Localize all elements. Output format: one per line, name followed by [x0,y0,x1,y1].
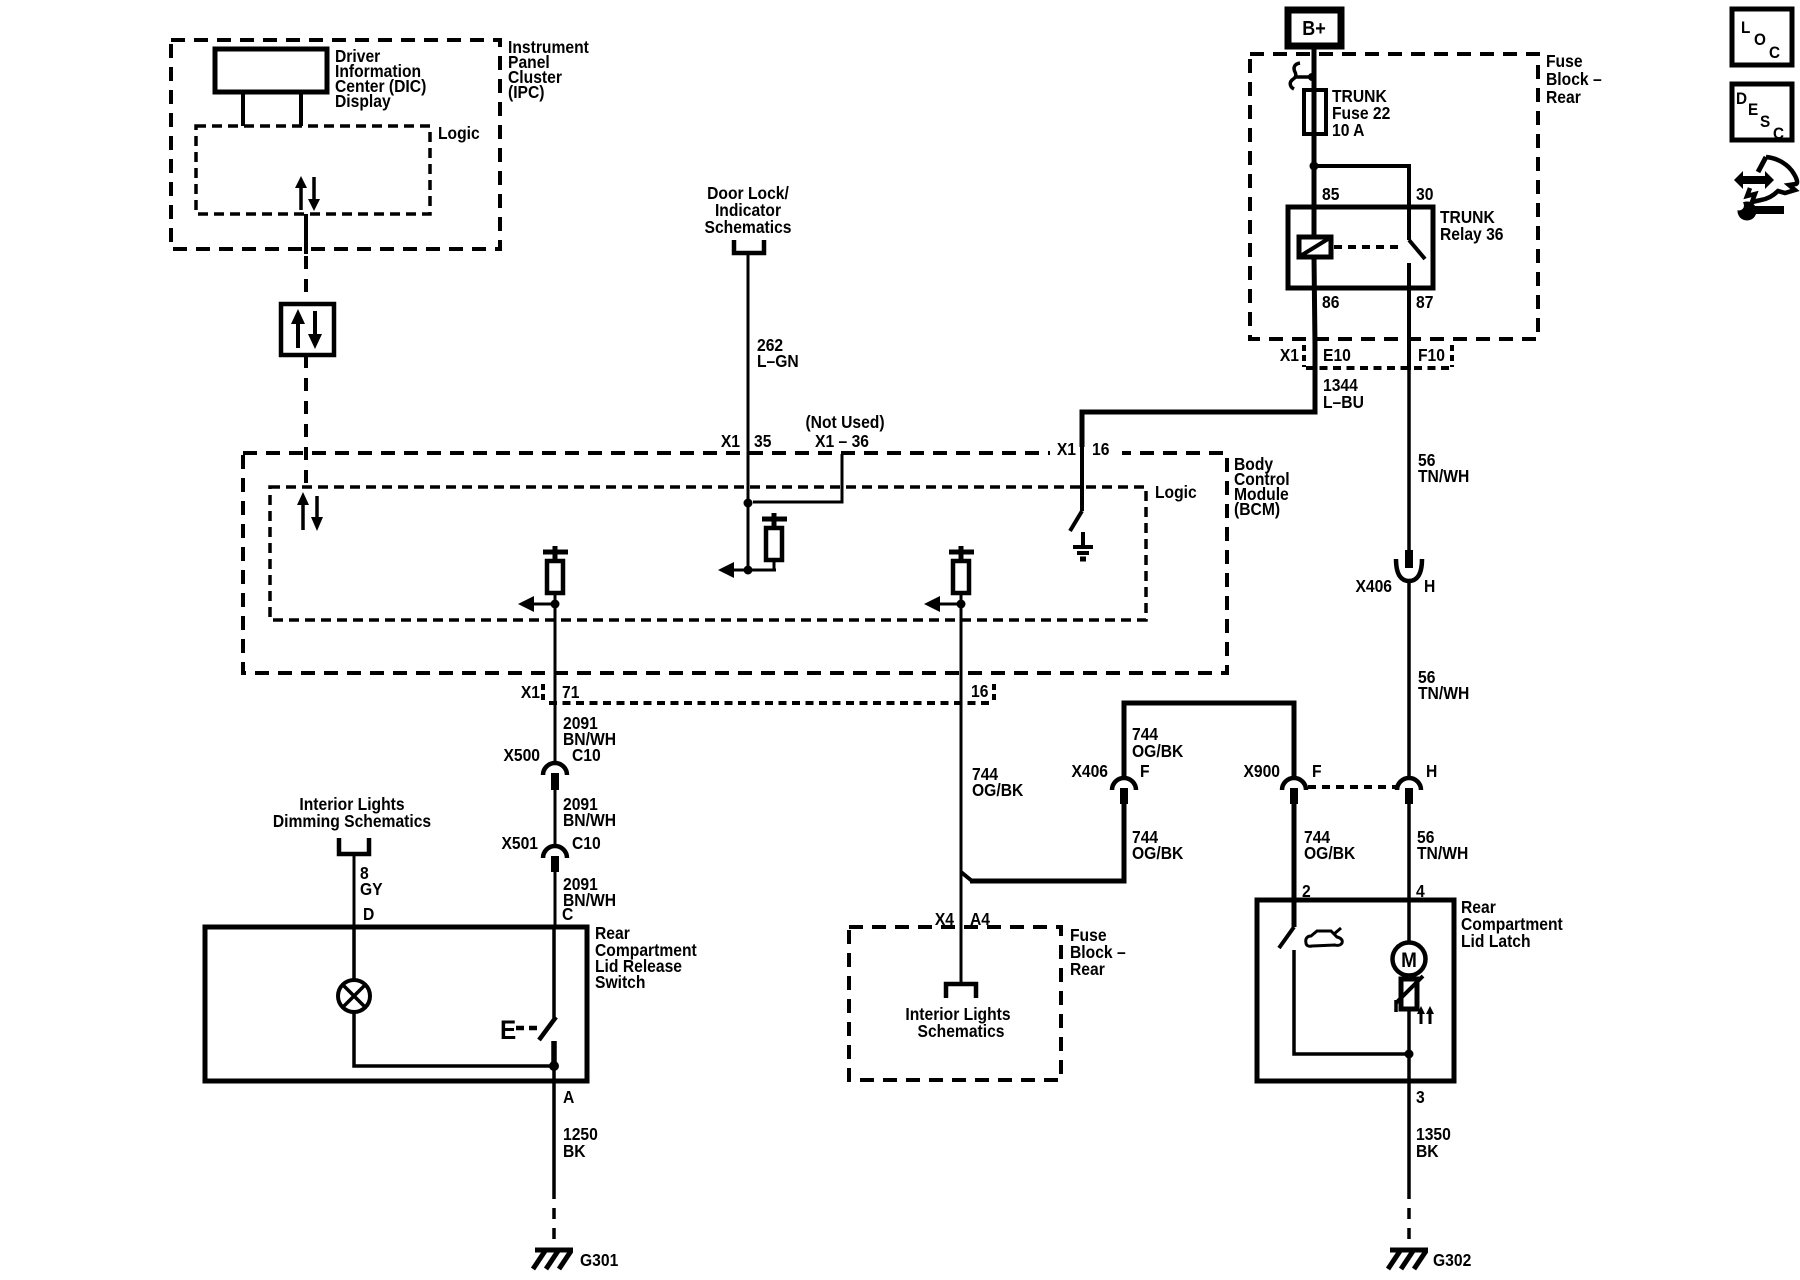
svg-text:G301: G301 [580,1250,618,1270]
fuse TRUNK Fuse 22 10A [1304,90,1326,134]
svg-text:C: C [1769,43,1780,62]
connector X900 F symbol [1282,778,1306,804]
wire DIC leg right [299,92,303,126]
svg-text:L–BU: L–BU [1323,392,1364,412]
wire B+ feed [1312,46,1317,90]
svg-text:30: 30 [1416,184,1433,204]
pin label X1-36 not used [805,412,884,451]
connector H symbol [1397,778,1421,804]
car trunk icon [1306,928,1343,946]
svg-text:Rear: Rear [1546,87,1581,107]
wire label 56 TN/WH (mid) [1418,667,1469,703]
wire into BCM logic [747,503,750,570]
node junction 262/X1-36 [744,499,753,508]
BCM internal ground [1073,532,1093,559]
svg-text:C: C [562,904,573,924]
connector X500 C10 labels [503,745,600,765]
fuse block rear (bottom) dashed box [849,927,1061,1080]
rear compartment lid latch box [1257,900,1454,1081]
svg-text:F: F [1312,761,1322,781]
wire label 56 TN/WH (lower) [1417,827,1468,863]
latch label [1461,897,1563,951]
instrument panel cluster IPC dashed box [171,40,500,249]
ground G302 [1388,1250,1428,1269]
connector X4 A4 labels [935,909,991,929]
svg-text:L: L [1741,18,1750,37]
BCM logic label [1155,482,1197,502]
interior lights dimming schematics label [273,794,431,831]
svg-text:TN/WH: TN/WH [1418,683,1469,703]
svg-text:OG/BK: OG/BK [1304,843,1356,863]
svg-text:16: 16 [1092,439,1109,459]
interior lights schematics label [905,1004,1010,1041]
thermal protector (PTC) [1396,975,1423,1012]
svg-text:X406: X406 [1355,576,1392,596]
connector H label [1426,761,1437,781]
wire serial data dashed to BCM [304,355,308,492]
wire 2091 between connectors [554,790,557,848]
BCM up/down arrows [297,492,323,531]
wire label 2091 BN/WH (upper) [563,713,616,749]
ground label G302 [1433,1250,1471,1270]
wire 1344 L-BU elbow to BCM X1 16 [1082,345,1315,455]
connector X406 H labels [1355,576,1435,596]
IPC logic dashed box [196,126,430,214]
svg-text:D: D [363,904,374,924]
door lock indicator schematics label [705,183,792,237]
wire label 2091 BN/WH (lower) [563,874,616,910]
wire C into switch [552,927,556,1018]
in-line connection hook symbol [1290,63,1316,89]
relay label [1440,207,1504,244]
svg-text:85: 85 [1322,184,1339,204]
wire dashed to ground G302 [1407,1188,1411,1246]
wire coil to pin 86 / E10 [1314,257,1315,345]
latch ajar switch blade [1279,927,1294,948]
DIC label text [335,46,426,111]
battery feed B+ box [1288,10,1341,46]
svg-text:Schematics: Schematics [705,217,792,237]
inter-harness dashed link X900 to H [1308,785,1396,789]
wire jog to thick 744 feed [961,872,972,881]
pin label 2 [1302,881,1311,901]
node junction lamp/switch [549,1061,559,1071]
pin label X1 16 (BCM) [1057,439,1110,459]
svg-text:(Not Used): (Not Used) [805,412,884,432]
connector X406 F labels [1071,761,1149,781]
fuse block rear (top) label [1546,51,1602,107]
fuse block rear (bottom) label [1070,925,1126,979]
svg-text:(IPC): (IPC) [508,82,545,102]
svg-text:35: 35 [754,431,771,451]
pin label 4 [1416,881,1425,901]
wire label 744 OG/BK (below X406 F) [1132,827,1184,863]
wire fuse to junction [1312,134,1317,237]
svg-text:Relay 36: Relay 36 [1440,224,1504,244]
svg-text:3: 3 [1416,1087,1425,1107]
fuse block rear (top) dashed box [1250,54,1538,339]
IPC logic up/down arrows [295,176,320,211]
wire serial data (dashed) [304,256,308,304]
DESC icon box [1732,84,1792,143]
wrench icon [1734,201,1784,221]
switch lower contact [551,1041,557,1066]
svg-text:Schematics: Schematics [918,1021,1005,1041]
wire label 744 OG/BK (below X900 F) [1304,827,1356,863]
wire dashed to ground G301 [552,1188,556,1246]
svg-text:Lid Latch: Lid Latch [1461,931,1531,951]
svg-text:F10: F10 [1418,345,1445,365]
relay lower contact 87 stub [1407,263,1411,370]
node junction latch common [1405,1050,1414,1059]
illumination lamp [338,980,370,1012]
wire DIC leg left [241,92,245,126]
arrows in box [291,309,322,349]
BCM internal switch blade [1070,511,1082,531]
svg-text:X501: X501 [501,833,538,853]
IPC logic label [438,123,480,143]
svg-text:OG/BK: OG/BK [972,780,1024,800]
svg-text:X500: X500 [503,745,540,765]
wire branch to relay contact 30 [1314,166,1409,240]
wire latch switch to common [1294,950,1406,1054]
pin label C [562,904,573,924]
svg-text:O: O [1754,30,1766,49]
node junction right resistor [957,600,966,609]
wire 56 TN/WH from F10 [1407,369,1411,551]
wire from IPC logic (solid) [304,214,308,254]
svg-text:B+: B+ [1302,18,1326,40]
wire label 8 GY [360,863,383,899]
wire 2091 BN/WH from BCM [554,604,557,765]
wire label 2091 BN/WH (mid) [563,794,616,830]
svg-text:86: 86 [1322,292,1339,312]
node junction arrow/resistor [744,566,753,575]
svg-text:GY: GY [360,879,383,899]
svg-text:L–GN: L–GN [757,351,799,371]
svg-text:F: F [1140,761,1150,781]
svg-text:OG/BK: OG/BK [1132,843,1184,863]
wire thick 744 down to X900 F [1292,701,1297,780]
svg-text:D: D [1736,89,1747,108]
svg-text:X1: X1 [1280,345,1299,365]
wire to lamp [352,927,356,980]
wire thick 744 above X406 F [1122,701,1127,780]
wire thick 744 horizontal to X406 [970,879,1127,884]
svg-text:BK: BK [563,1141,586,1161]
left pull-up resistor with supply T-bar (2091 circuit) [543,546,568,604]
DIC display box [215,49,327,92]
signal arrow into logic (left) [518,596,555,612]
pin label 3 [1416,1087,1425,1107]
svg-text:87: 87 [1416,292,1433,312]
B+ label [1302,18,1326,40]
BCM label text [1234,454,1290,519]
svg-text:TN/WH: TN/WH [1418,466,1469,486]
svg-text:H: H [1424,576,1435,596]
svg-text:TN/WH: TN/WH [1417,843,1468,863]
connector X501 symbol [543,846,567,872]
wire thick 744 down to latch pin 2 [1292,803,1297,927]
wire 56 TN/WH between connectors [1407,579,1411,779]
door lock off-page bracket [734,240,764,253]
connector X406 H in-line symbol [1396,550,1422,581]
motor M [1393,943,1426,976]
svg-text:71: 71 [562,682,579,702]
svg-text:G302: G302 [1433,1250,1471,1270]
svg-text:X1 – 36: X1 – 36 [815,431,869,451]
pin label X1 35 [721,431,772,451]
svg-text:Switch: Switch [595,972,645,992]
svg-text:16: 16 [971,681,988,701]
node junction left resistor [551,600,560,609]
wire 56 TN/WH to latch pin 4 [1407,804,1411,942]
svg-text:10 A: 10 A [1332,120,1364,140]
signal arrow into logic (right) [924,596,961,612]
svg-text:X1: X1 [1057,439,1076,459]
fuse label [1332,86,1390,140]
wire thick 744 up to X406 F [1122,803,1127,884]
navigation arrow icon [1734,157,1797,202]
relay coil [1299,237,1331,257]
svg-text:(BCM): (BCM) [1234,499,1280,519]
wire from lamp [354,1012,554,1066]
svg-text:OG/BK: OG/BK [1132,741,1184,761]
connector X500 symbol [543,763,567,790]
relay switch blade [1409,240,1425,259]
LOC icon box [1732,9,1792,65]
wire 2091 to switch [554,872,557,927]
pin label D [363,904,374,924]
connector X900 F labels [1243,761,1321,781]
PTC trend arrows [1417,1006,1434,1024]
wire stub X1-36 [753,454,842,502]
svg-text:BN/WH: BN/WH [563,810,616,830]
pin label A [563,1087,574,1107]
svg-text:E10: E10 [1323,345,1351,365]
svg-text:X1: X1 [521,682,540,702]
svg-text:X1: X1 [721,431,740,451]
svg-text:Logic: Logic [438,123,480,143]
relay actuation dashed link [1334,245,1404,249]
TRUNK relay 36 box [1288,207,1433,288]
wire thick 744 top horizontal [1122,701,1297,706]
svg-text:C10: C10 [572,833,601,853]
BCM logic dashed box [270,487,1146,620]
wire label 744 OG/BK (at BCM 16) [972,764,1024,800]
wire 744 OG/BK from BCM pin 16 [960,604,963,982]
relay pin labels 86 87 [1322,292,1433,312]
signal arrow into logic (mid) [718,562,776,578]
wire into BCM to switch [1080,446,1084,511]
BCM bottom connector row: X1 71 16 [521,681,994,703]
wire label 744 OG/BK (above X406 F) [1132,724,1184,761]
connector X501 C10 labels [501,833,600,853]
wire label 1344 L-BU [1323,375,1364,412]
label gap on BCM edge [1050,447,1122,459]
svg-text:E: E [1748,100,1758,119]
relay pin labels 85 30 [1322,184,1433,204]
interior lights off-page bracket [946,984,976,998]
svg-text:C10: C10 [572,745,601,765]
wire label 56 TN/WH (upper) [1418,450,1469,486]
svg-text:Dimming Schematics: Dimming Schematics [273,811,431,831]
ground label G301 [580,1250,618,1270]
svg-text:E: E [500,1016,516,1045]
wire 8 GY [353,856,356,927]
dimming off-page bracket [339,838,369,854]
wire label 262 L-GN [757,335,799,371]
svg-text:A: A [563,1087,574,1107]
svg-text:H: H [1426,761,1437,781]
svg-text:X900: X900 [1243,761,1280,781]
body control module BCM dashed box [243,453,1227,673]
wire motor to pin 3 [1407,1009,1411,1188]
connector X1 E10 F10 dashed outline [1304,345,1452,368]
switch blade E [500,1016,556,1045]
release switch label [595,923,697,992]
ground G301 [533,1250,573,1269]
wire label 1250 BK [563,1124,598,1161]
connector X406 F symbol [1112,778,1136,804]
svg-text:M: M [1401,949,1417,972]
svg-text:X406: X406 [1071,761,1108,781]
svg-text:S: S [1760,112,1770,131]
svg-text:Logic: Logic [1155,482,1197,502]
wire A out of box [552,1066,556,1188]
wire label 1350 BK [1416,1124,1451,1161]
connector X1 E10 F10 labels [1280,345,1445,365]
svg-text:Display: Display [335,91,391,111]
wire 262 L-GN [747,254,750,503]
svg-text:BK: BK [1416,1141,1439,1161]
svg-text:C: C [1773,124,1784,143]
rear compartment lid release switch box [205,927,587,1081]
pull-up resistor (mid) with supply T-bar [762,513,787,570]
right pull-up resistor with supply T-bar (744 circuit) [949,546,974,604]
svg-text:Rear: Rear [1070,959,1105,979]
IPC label text [508,37,589,102]
node junction fuse output [1310,162,1319,171]
serial data up/down arrow box [281,304,334,355]
